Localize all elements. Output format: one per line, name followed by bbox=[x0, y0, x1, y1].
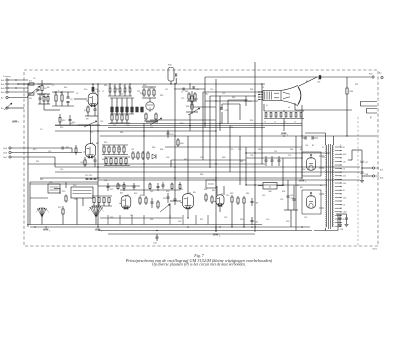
svg-text:R99: R99 bbox=[286, 221, 289, 223]
cap C23 bbox=[221, 104, 228, 124]
svg-text:6.3: 6.3 bbox=[343, 169, 346, 171]
wire y136 bbox=[100, 135, 377, 137]
svg-text:Bu: Bu bbox=[1, 98, 3, 100]
filter terminals bbox=[362, 167, 383, 180]
svg-text:Bu: Bu bbox=[379, 73, 381, 75]
svg-text:C46: C46 bbox=[296, 185, 299, 187]
parts on y186 bbox=[107, 182, 181, 191]
svg-text:C52: C52 bbox=[288, 155, 291, 157]
wire y125 bbox=[55, 125, 302, 127]
cap C29 bbox=[167, 131, 174, 138]
wire y107 bbox=[190, 106, 216, 108]
wire y125 bus bbox=[55, 124, 100, 126]
svg-text:R20: R20 bbox=[120, 94, 123, 96]
svg-text:B3: B3 bbox=[140, 109, 142, 111]
svg-text:R5a: R5a bbox=[84, 89, 87, 91]
svg-text:R25: R25 bbox=[113, 125, 116, 127]
svg-text:C29: C29 bbox=[170, 134, 173, 136]
wire x230 vert bbox=[229, 126, 231, 173]
V2 grid feed bbox=[30, 148, 82, 167]
wire y123 bbox=[108, 123, 302, 125]
svg-text:g4: g4 bbox=[258, 94, 260, 96]
svg-text:R14: R14 bbox=[104, 85, 107, 87]
svg-text:R79: R79 bbox=[163, 198, 166, 200]
time box bbox=[71, 185, 93, 198]
svg-text:B8: B8 bbox=[320, 185, 322, 187]
right terminals outside bbox=[379, 73, 383, 79]
svg-text:R43: R43 bbox=[195, 99, 198, 101]
svg-text:R11: R11 bbox=[66, 147, 69, 149]
rect loop 1 bbox=[302, 152, 321, 176]
wire x190 down bbox=[189, 114, 191, 131]
svg-text:R26: R26 bbox=[126, 125, 129, 127]
svg-text:R93: R93 bbox=[302, 169, 305, 171]
svg-text:C13: C13 bbox=[48, 151, 51, 153]
svg-text:R91: R91 bbox=[318, 79, 321, 81]
CRT anode wire to EHT bbox=[299, 77, 317, 86]
enclosure dashed border (chassis outline) bbox=[24, 70, 378, 246]
svg-text:C47: C47 bbox=[130, 215, 133, 217]
rail y182 bbox=[30, 181, 98, 183]
svg-text:Bu: Bu bbox=[1, 108, 3, 110]
svg-text:R44: R44 bbox=[232, 97, 235, 99]
chassis at border left bbox=[12, 121, 20, 124]
pot arrow timebase bbox=[160, 204, 170, 212]
wire y186 bbox=[98, 185, 140, 187]
svg-text:C51: C51 bbox=[274, 151, 277, 153]
svg-text:C32: C32 bbox=[134, 157, 137, 159]
res R70 R71 bbox=[58, 195, 67, 225]
fuse blob on EHT bus bbox=[317, 75, 321, 83]
svg-text:B9: B9 bbox=[306, 81, 308, 83]
svg-text:R55: R55 bbox=[104, 142, 107, 144]
HV wire down bbox=[346, 98, 348, 136]
svg-text:R3a: R3a bbox=[44, 97, 47, 99]
wire y198 left bbox=[30, 197, 48, 199]
svg-text:C41: C41 bbox=[180, 189, 183, 191]
svg-text:Y-ingang: Y-ingang bbox=[3, 76, 10, 78]
rotary switch SK1 fan bbox=[36, 208, 49, 217]
svg-text:R66: R66 bbox=[160, 149, 163, 151]
box leads bbox=[258, 185, 283, 187]
wire x210 vert bbox=[209, 96, 211, 168]
chassis P1 bbox=[95, 229, 103, 233]
wire x296 vert bbox=[295, 136, 297, 231]
B6 leads bbox=[217, 186, 224, 212]
bank R72-R75 bbox=[92, 196, 112, 206]
wire y172 bbox=[55, 171, 360, 173]
pot R39 bbox=[186, 108, 200, 115]
svg-text:R28a: R28a bbox=[140, 93, 144, 95]
svg-text:Bu7: Bu7 bbox=[380, 170, 383, 172]
anode resistor bank R14-R18 bbox=[108, 84, 132, 96]
wire y180 bbox=[98, 179, 360, 181]
vert x302 bbox=[301, 111, 303, 178]
divider bank R19-R23 bbox=[110, 98, 143, 114]
svg-text:R8: R8 bbox=[47, 87, 49, 89]
wire x216 vert bbox=[215, 79, 217, 232]
terminal on EHT bus bbox=[369, 74, 374, 79]
wire y133 top bbox=[305, 132, 326, 134]
svg-text:Bu3: Bu3 bbox=[1, 88, 4, 90]
chassis P5 bbox=[299, 180, 307, 184]
svg-text:R98: R98 bbox=[240, 219, 243, 221]
svg-text:R97: R97 bbox=[200, 219, 203, 221]
svg-text:R76: R76 bbox=[134, 193, 137, 195]
svg-text:Op diverse plaatsen (P) is het: Op diverse plaatsen (P) is het circuit m… bbox=[152, 263, 246, 267]
chassis P3 bbox=[281, 133, 289, 137]
switch wires bbox=[42, 182, 96, 225]
svg-text:C5: C5 bbox=[52, 85, 54, 87]
rail y218 bbox=[100, 217, 182, 219]
svg-text:C16: C16 bbox=[100, 121, 103, 123]
res R70a bbox=[191, 91, 198, 106]
svg-text:R80: R80 bbox=[204, 189, 207, 191]
svg-text:SK1: SK1 bbox=[40, 179, 43, 181]
svg-text:R44: R44 bbox=[250, 89, 253, 91]
wire y160 bbox=[171, 160, 246, 167]
bank R55-R59 bbox=[102, 145, 128, 155]
wire y190 bbox=[120, 189, 180, 191]
svg-text:R13: R13 bbox=[62, 120, 65, 122]
svg-text:C53: C53 bbox=[280, 199, 283, 201]
svg-text:R54: R54 bbox=[120, 132, 123, 134]
wire to V1 grid bbox=[74, 98, 87, 100]
svg-text:6.3: 6.3 bbox=[343, 205, 346, 207]
wire y167 bbox=[55, 166, 360, 168]
svg-text:C30: C30 bbox=[248, 101, 251, 103]
filter wire bbox=[348, 150, 362, 160]
svg-text:C22: C22 bbox=[222, 93, 225, 95]
transformer primary taps bbox=[319, 156, 324, 208]
tube B5 bbox=[180, 192, 196, 209]
CRT gun leads bbox=[258, 92, 263, 100]
svg-text:R70: R70 bbox=[58, 207, 61, 209]
cap C22 bbox=[190, 83, 199, 91]
electrolytic can C10 and trimmer bbox=[168, 65, 177, 85]
wire y164 bbox=[28, 163, 265, 165]
svg-text:SK4: SK4 bbox=[73, 185, 76, 187]
svg-text:P: P bbox=[369, 117, 372, 120]
rectifier tube B8 bbox=[300, 187, 316, 208]
bottom drop wires bbox=[108, 215, 208, 225]
svg-text:C17: C17 bbox=[90, 132, 93, 134]
terminal Bu3a bbox=[1, 107, 24, 110]
wire x240 vert bbox=[239, 104, 241, 120]
svg-text:R61: R61 bbox=[102, 159, 105, 161]
wire y147 bbox=[165, 146, 302, 148]
svg-text:R57: R57 bbox=[118, 149, 121, 151]
vert x283 drop bbox=[282, 158, 284, 186]
svg-text:C23: C23 bbox=[225, 110, 228, 112]
cap C63 bbox=[251, 198, 258, 206]
svg-text:C20: C20 bbox=[210, 89, 213, 91]
svg-text:C33: C33 bbox=[166, 157, 169, 159]
svg-text:+405: +405 bbox=[343, 212, 347, 214]
svg-text:R82: R82 bbox=[230, 193, 233, 195]
EHT bus corner bbox=[204, 77, 206, 128]
V2 cathode network bbox=[81, 157, 97, 167]
wire vertical x98 bbox=[97, 84, 99, 227]
rail y227 bbox=[30, 226, 310, 228]
svg-text:R78: R78 bbox=[166, 191, 169, 193]
box relay bbox=[206, 180, 216, 188]
bank R31 R32 bbox=[144, 113, 158, 122]
svg-text:R92: R92 bbox=[355, 84, 358, 86]
svg-text:C36: C36 bbox=[250, 155, 253, 157]
svg-text:R29: R29 bbox=[150, 88, 153, 90]
svg-text:Bu2: Bu2 bbox=[1, 84, 4, 86]
caps row above bbox=[85, 175, 97, 180]
HT bus y84 bbox=[18, 83, 265, 85]
rect loop 2 bbox=[302, 190, 321, 214]
svg-text:C56: C56 bbox=[317, 82, 320, 84]
CRT funnel and screen D7-200 bbox=[281, 86, 301, 106]
svg-text:R38: R38 bbox=[186, 106, 189, 108]
wire y100 seg bbox=[228, 99, 246, 101]
res R82-R84 bbox=[231, 195, 245, 205]
svg-text:a1: a1 bbox=[266, 105, 268, 107]
chassis P4 bbox=[43, 229, 51, 233]
svg-text:C25: C25 bbox=[150, 127, 153, 129]
bank R28-R30 bbox=[142, 85, 156, 98]
svg-text:C62: C62 bbox=[290, 195, 293, 197]
svg-text:R13: R13 bbox=[70, 123, 73, 125]
svg-text:C22: C22 bbox=[196, 89, 199, 91]
bank R60-R64 bbox=[104, 157, 130, 166]
transformer secondary taps bbox=[335, 147, 347, 227]
svg-text:C37 C38: C37 C38 bbox=[85, 175, 92, 177]
input terminals Bu1-Bu4 bbox=[1, 79, 28, 94]
svg-text:R88: R88 bbox=[258, 149, 261, 151]
svg-text:C7: C7 bbox=[181, 92, 183, 94]
svg-text:C52: C52 bbox=[304, 217, 307, 219]
svg-text:SK2: SK2 bbox=[104, 180, 107, 182]
svg-text:R13: R13 bbox=[60, 127, 63, 129]
svg-text:R96: R96 bbox=[150, 219, 153, 221]
svg-text:C9: C9 bbox=[40, 129, 42, 131]
wire y104 seg bbox=[222, 103, 240, 105]
wire y127 bbox=[108, 127, 265, 129]
chassis P2 bbox=[213, 234, 221, 238]
range box bbox=[48, 182, 60, 193]
svg-text:R15: R15 bbox=[116, 89, 119, 91]
svg-text:2561: 2561 bbox=[372, 249, 378, 251]
filter ground bbox=[360, 181, 364, 183]
caps C55 C56 bbox=[302, 137, 318, 140]
cap feed wires bbox=[336, 213, 347, 215]
svg-text:R34: R34 bbox=[168, 65, 171, 67]
cap row C50 C51 bbox=[265, 156, 281, 166]
svg-text:R70: R70 bbox=[62, 191, 65, 193]
tube V1 bbox=[86, 91, 100, 107]
wire x228 vert bbox=[227, 100, 229, 124]
vert x175 bbox=[174, 83, 176, 195]
wire x255 tall vert bbox=[254, 62, 256, 232]
svg-text:C57: C57 bbox=[365, 162, 368, 164]
V1 anode resistor R6 bbox=[92, 84, 99, 93]
svg-text:C35: C35 bbox=[238, 149, 241, 151]
svg-text:C4: C4 bbox=[36, 91, 38, 93]
wire x262 vert bbox=[261, 84, 263, 164]
bank R65 diode bbox=[132, 151, 156, 160]
parts row y185 bbox=[117, 182, 173, 190]
cap C58 bbox=[361, 168, 368, 180]
transformer secondary winding bbox=[332, 145, 333, 227]
svg-text:D7: D7 bbox=[262, 87, 264, 89]
svg-text:C44: C44 bbox=[153, 243, 156, 245]
svg-text:C35: C35 bbox=[230, 149, 233, 151]
bank R36-R38 bbox=[185, 91, 197, 114]
V2 anode lead bbox=[90, 136, 92, 144]
wire x30 down bbox=[29, 182, 31, 225]
vert drops bottom bbox=[216, 204, 244, 232]
svg-text:R95: R95 bbox=[110, 217, 113, 219]
svg-text:R33: R33 bbox=[160, 95, 163, 97]
svg-text:C48: C48 bbox=[178, 221, 181, 223]
wire tube B5 leads bbox=[170, 136, 188, 218]
input terminals Bu5-Bu7 bbox=[4, 147, 31, 159]
CRT graticule lead bbox=[295, 103, 352, 110]
svg-text:C6: C6 bbox=[76, 93, 78, 95]
svg-text:C38: C38 bbox=[74, 199, 77, 201]
attenuator divider R4 R5 C2 bbox=[52, 92, 74, 106]
svg-text:C3: C3 bbox=[33, 78, 35, 80]
svg-text:R28: R28 bbox=[143, 85, 146, 87]
rail y234 bbox=[108, 233, 255, 235]
cap C59 bbox=[338, 214, 342, 227]
svg-text:C45: C45 bbox=[262, 195, 265, 197]
transformer primary winding bbox=[326, 145, 327, 227]
svg-text:C31: C31 bbox=[131, 149, 134, 151]
wire x203 vert bbox=[202, 92, 204, 160]
wire y101 bbox=[205, 100, 258, 102]
svg-text:SK3: SK3 bbox=[49, 182, 52, 184]
svg-text:T1: T1 bbox=[322, 147, 324, 149]
svg-text:R10: R10 bbox=[33, 149, 36, 151]
divider feed bbox=[264, 104, 302, 131]
svg-text:R94: R94 bbox=[282, 191, 285, 193]
wire vertical x28 bbox=[27, 84, 29, 227]
res R80 R81 bbox=[205, 193, 213, 204]
cap C14a bbox=[69, 115, 76, 126]
probe arrow bbox=[4, 103, 12, 110]
EHT bus y77 bbox=[205, 76, 371, 78]
rail y158 bbox=[246, 157, 302, 159]
HV res R90 bbox=[346, 77, 354, 98]
rail y224 bbox=[100, 224, 262, 226]
svg-text:Bu4: Bu4 bbox=[1, 92, 4, 94]
chassis bracket P bbox=[361, 102, 378, 120]
svg-text:C64: C64 bbox=[340, 229, 343, 231]
tube V2 bbox=[83, 142, 99, 158]
svg-text:R36: R36 bbox=[185, 91, 188, 93]
cap C61 bbox=[251, 217, 258, 225]
vert x170 drop bbox=[169, 203, 171, 218]
transformer bottom lead bbox=[314, 214, 338, 231]
rectifier tube B7 bbox=[300, 149, 316, 170]
grid caps bbox=[62, 145, 77, 155]
svg-text:C7: C7 bbox=[102, 91, 104, 93]
CRT divider chain R45-R52 bbox=[264, 111, 304, 124]
svg-text:R87: R87 bbox=[240, 161, 243, 163]
divider bank R24-R27 bbox=[110, 112, 130, 123]
svg-text:R86: R86 bbox=[200, 174, 203, 176]
tube B6 bbox=[212, 190, 224, 207]
svg-text:C15: C15 bbox=[181, 98, 184, 100]
rail y185 bbox=[246, 184, 327, 186]
wire pot to V2 bbox=[90, 125, 92, 136]
svg-text:R89: R89 bbox=[290, 149, 293, 151]
wire y92 bbox=[203, 91, 262, 93]
vert x246 bbox=[245, 153, 247, 185]
svg-text:C63: C63 bbox=[255, 203, 258, 205]
transformer core bbox=[329, 144, 331, 229]
svg-text:R42: R42 bbox=[205, 94, 208, 96]
wire y131 bbox=[55, 130, 216, 132]
svg-text:R53: R53 bbox=[250, 120, 253, 122]
svg-text:C50: C50 bbox=[266, 219, 269, 221]
svg-text:C39: C39 bbox=[118, 185, 121, 187]
wire y96 bbox=[210, 95, 255, 97]
cap C30 bbox=[245, 96, 252, 106]
CRT electrode gun bbox=[263, 91, 281, 101]
box A300 bbox=[263, 183, 277, 193]
cap C7 link bbox=[174, 88, 206, 94]
svg-text:+16: +16 bbox=[343, 161, 346, 163]
wire y178 bbox=[40, 177, 302, 179]
svg-text:Bu1: Bu1 bbox=[1, 80, 4, 82]
svg-text:C14: C14 bbox=[60, 169, 63, 171]
svg-text:R85: R85 bbox=[246, 193, 249, 195]
cap C60 bbox=[345, 214, 349, 227]
timebase R76-R78 C40 bbox=[139, 196, 159, 209]
svg-text:C43: C43 bbox=[226, 195, 229, 197]
caps C41 C42 bbox=[167, 193, 177, 205]
svg-text:-250: -250 bbox=[343, 176, 347, 178]
tube B4 bbox=[119, 193, 131, 210]
res R13a bbox=[59, 114, 65, 126]
svg-text:R76: R76 bbox=[140, 195, 143, 197]
svg-text:C54: C54 bbox=[305, 145, 308, 147]
svg-text:R11: R11 bbox=[36, 161, 39, 163]
svg-text:R4a: R4a bbox=[64, 87, 67, 89]
svg-text:C24: C24 bbox=[230, 127, 233, 129]
wire x240 vert2 bbox=[239, 136, 241, 185]
wire x220 vert bbox=[219, 96, 221, 131]
svg-text:B7: B7 bbox=[312, 145, 314, 147]
V1 cathode network bbox=[84, 106, 98, 117]
rotary switch SK2 fan bbox=[88, 206, 104, 217]
wire x246 vert2 bbox=[245, 147, 247, 153]
svg-text:C49: C49 bbox=[224, 217, 227, 219]
svg-text:a2: a2 bbox=[288, 107, 290, 109]
svg-text:R72: R72 bbox=[110, 189, 113, 191]
svg-text:C40: C40 bbox=[150, 191, 153, 193]
rail y184 bbox=[30, 183, 98, 185]
transformer top leads bbox=[326, 133, 334, 145]
wire y120 seg bbox=[150, 119, 216, 121]
input attenuator R1-R3 C1 bbox=[27, 80, 52, 100]
svg-text:C34: C34 bbox=[200, 157, 203, 159]
res R40 bbox=[177, 138, 184, 147]
small valve B3 bbox=[146, 98, 154, 112]
svg-text:C11: C11 bbox=[165, 89, 168, 91]
rail y156 bbox=[246, 152, 330, 154]
svg-text:Bu8: Bu8 bbox=[380, 178, 383, 180]
gain potentiometer bbox=[78, 119, 97, 128]
rail y230 bbox=[98, 230, 312, 232]
